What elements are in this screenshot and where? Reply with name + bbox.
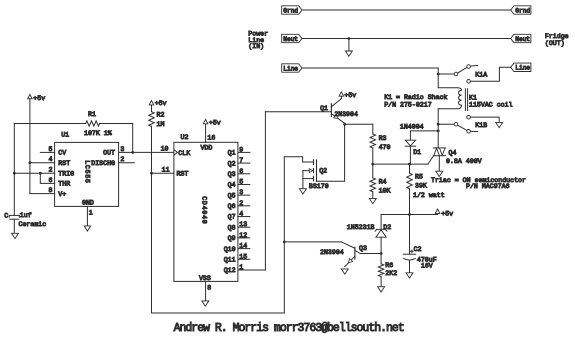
svg-text:Q8: Q8 [228,224,236,231]
svg-text:107K 1%: 107K 1% [84,130,112,137]
svg-text:CD4040: CD4040 [200,196,207,224]
svg-text:1/2 watt: 1/2 watt [413,192,445,199]
svg-text:9: 9 [239,146,243,153]
svg-text:39K: 39K [415,182,427,189]
svg-text:Neut: Neut [515,36,530,43]
svg-text:Q11: Q11 [224,257,236,264]
svg-text:+5v: +5v [441,211,453,218]
svg-text:Andrew R. Morris morr3763@bell: Andrew R. Morris morr3763@bellsouth.net [174,322,404,335]
svg-text:5: 5 [49,146,53,153]
svg-text:16: 16 [207,134,215,141]
svg-text:Q4: Q4 [228,182,236,189]
svg-text:16V: 16V [421,262,433,269]
svg-text:(OUT): (OUT) [545,40,565,47]
svg-text:Grnd: Grnd [515,7,530,14]
svg-text:1N4004: 1N4004 [400,124,424,131]
svg-text:Q7: Q7 [228,214,236,221]
svg-text:U2: U2 [181,134,189,141]
svg-text:Q2: Q2 [319,168,327,175]
svg-text:K1A: K1A [475,71,487,78]
svg-text:TRIG: TRIG [58,170,74,177]
svg-text:3: 3 [239,189,243,196]
svg-text:P/N MAC97A6: P/N MAC97A6 [466,183,510,190]
svg-text:GND: GND [82,199,94,206]
svg-text:1: 1 [239,264,243,271]
svg-text:13: 13 [239,221,247,228]
svg-text:R6: R6 [385,262,393,269]
svg-text:Q4: Q4 [449,150,457,157]
svg-text:K1B: K1B [475,122,487,129]
svg-text:K1 = Radio Shack: K1 = Radio Shack [384,94,447,101]
svg-text:Q12: Q12 [224,267,236,274]
svg-text:10: 10 [161,146,169,153]
svg-text:THR: THR [58,181,70,188]
svg-text:15: 15 [239,253,247,260]
svg-text:DISCHG: DISCHG [91,160,115,167]
svg-text:2N3904: 2N3904 [320,249,344,256]
svg-text:6: 6 [49,177,53,184]
svg-text:U1: U1 [61,132,69,139]
svg-text:115VAC coil: 115VAC coil [469,102,513,109]
svg-text:0.8A 400V: 0.8A 400V [446,158,482,165]
svg-text:+5v: +5v [209,120,221,127]
svg-text:K1: K1 [469,95,477,102]
svg-text:R1: R1 [88,111,96,118]
svg-text:11: 11 [162,166,170,173]
svg-text:Q3: Q3 [228,171,236,178]
svg-text:Ceramic: Ceramic [19,221,47,228]
svg-text:Q5: Q5 [228,192,236,199]
svg-text:470: 470 [379,144,391,151]
svg-text:2N3904: 2N3904 [334,111,358,118]
svg-text:CLK: CLK [178,150,190,157]
svg-text:1uf: 1uf [20,212,32,219]
svg-text:Q1: Q1 [228,150,236,157]
svg-text:4: 4 [49,156,53,163]
svg-text:CV: CV [58,150,66,157]
svg-text:P/N 275-0217: P/N 275-0217 [384,101,432,108]
svg-text:R2: R2 [157,112,165,119]
svg-text:1: 1 [89,210,93,217]
svg-text:3: 3 [120,146,124,153]
svg-text:+5v: +5v [33,95,45,102]
svg-text:Neut: Neut [283,36,298,43]
svg-text:D2: D2 [383,224,391,231]
svg-text:Q1: Q1 [320,105,328,112]
svg-text:R5: R5 [415,173,423,180]
svg-text:C: C [4,212,8,219]
svg-text:12: 12 [239,232,247,239]
svg-text:Line: Line [515,65,530,72]
svg-text:8: 8 [49,187,53,194]
svg-text:Q6: Q6 [228,203,236,210]
svg-text:BS170: BS170 [309,183,329,190]
svg-text:5: 5 [239,178,243,185]
svg-text:2K2: 2K2 [385,270,397,277]
svg-text:RST: RST [177,170,189,177]
svg-text:+5v: +5v [155,100,167,107]
svg-text:2: 2 [120,156,124,163]
svg-text:OUT: OUT [103,150,115,157]
svg-text:D1: D1 [413,149,421,156]
svg-text:VSS: VSS [199,275,211,282]
svg-text:Q3: Q3 [359,245,367,252]
svg-text:4: 4 [239,211,243,218]
svg-text:Q2: Q2 [228,160,236,167]
svg-text:1N5231B: 1N5231B [347,224,375,231]
svg-text:6: 6 [239,168,243,175]
svg-text:LC555: LC555 [83,160,90,184]
svg-text:C2: C2 [414,246,422,253]
svg-text:Line: Line [283,65,298,72]
svg-text:14: 14 [239,243,247,250]
svg-text:Q9: Q9 [228,235,236,242]
svg-text:Grnd: Grnd [283,7,298,14]
svg-text:2: 2 [49,167,53,174]
svg-text:R4: R4 [379,178,387,185]
svg-text:V+: V+ [58,191,66,198]
svg-text:8: 8 [207,285,211,292]
svg-text:R3: R3 [379,135,387,142]
svg-text:2: 2 [239,200,243,207]
svg-text:(IN): (IN) [248,43,264,50]
svg-text:10K: 10K [379,187,391,194]
svg-text:7: 7 [239,157,243,164]
svg-text:Q10: Q10 [224,246,236,253]
svg-text:VDD: VDD [200,145,212,152]
svg-text:+5v: +5v [344,92,356,99]
svg-text:1M: 1M [157,121,165,128]
svg-text:RST: RST [58,160,70,167]
